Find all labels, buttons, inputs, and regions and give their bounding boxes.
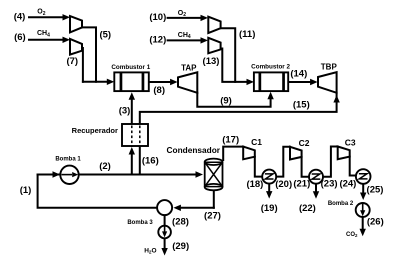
svg-text:C3: C3 [345,138,356,148]
svg-text:(13): (13) [203,56,220,67]
svg-text:C2: C2 [299,138,310,148]
svg-text:(14): (14) [290,68,307,79]
svg-text:(4): (4) [14,12,26,23]
svg-text:(9): (9) [220,96,232,107]
svg-text:(19): (19) [261,203,278,214]
svg-text:TBP: TBP [321,63,338,72]
svg-text:(15): (15) [293,99,310,110]
svg-text:(10): (10) [149,12,166,23]
svg-text:(21): (21) [293,179,310,190]
svg-text:(24): (24) [339,179,356,190]
svg-text:(7): (7) [66,56,78,67]
svg-text:Bomba 1: Bomba 1 [55,156,81,162]
svg-text:(22): (22) [299,203,316,214]
svg-text:(16): (16) [142,156,159,167]
svg-text:(12): (12) [149,34,166,45]
svg-text:Recuperador: Recuperador [72,126,118,135]
svg-text:(17): (17) [222,134,239,145]
svg-text:Bomba 2: Bomba 2 [328,201,354,207]
svg-text:Bomba 3: Bomba 3 [127,220,153,226]
svg-text:TAP: TAP [181,63,197,72]
svg-text:(26): (26) [367,217,384,228]
svg-text:(6): (6) [14,32,26,43]
svg-text:(29): (29) [172,241,189,252]
svg-text:(18): (18) [246,179,263,190]
svg-text:(27): (27) [204,211,221,222]
svg-text:(3): (3) [119,106,131,117]
svg-text:Combustor 2: Combustor 2 [251,64,290,71]
svg-text:CO2: CO2 [346,232,358,238]
svg-text:(23): (23) [321,179,338,190]
svg-text:(1): (1) [20,185,32,196]
svg-text:Condensador: Condensador [167,145,221,155]
svg-text:(20): (20) [275,179,292,190]
svg-text:Combustor 1: Combustor 1 [111,64,150,71]
svg-text:C1: C1 [251,137,262,147]
svg-text:(28): (28) [172,217,189,228]
svg-text:(8): (8) [153,85,165,96]
svg-text:(2): (2) [99,161,111,172]
svg-text:(25): (25) [367,185,384,196]
svg-text:(5): (5) [99,29,111,40]
svg-text:(11): (11) [239,29,255,40]
